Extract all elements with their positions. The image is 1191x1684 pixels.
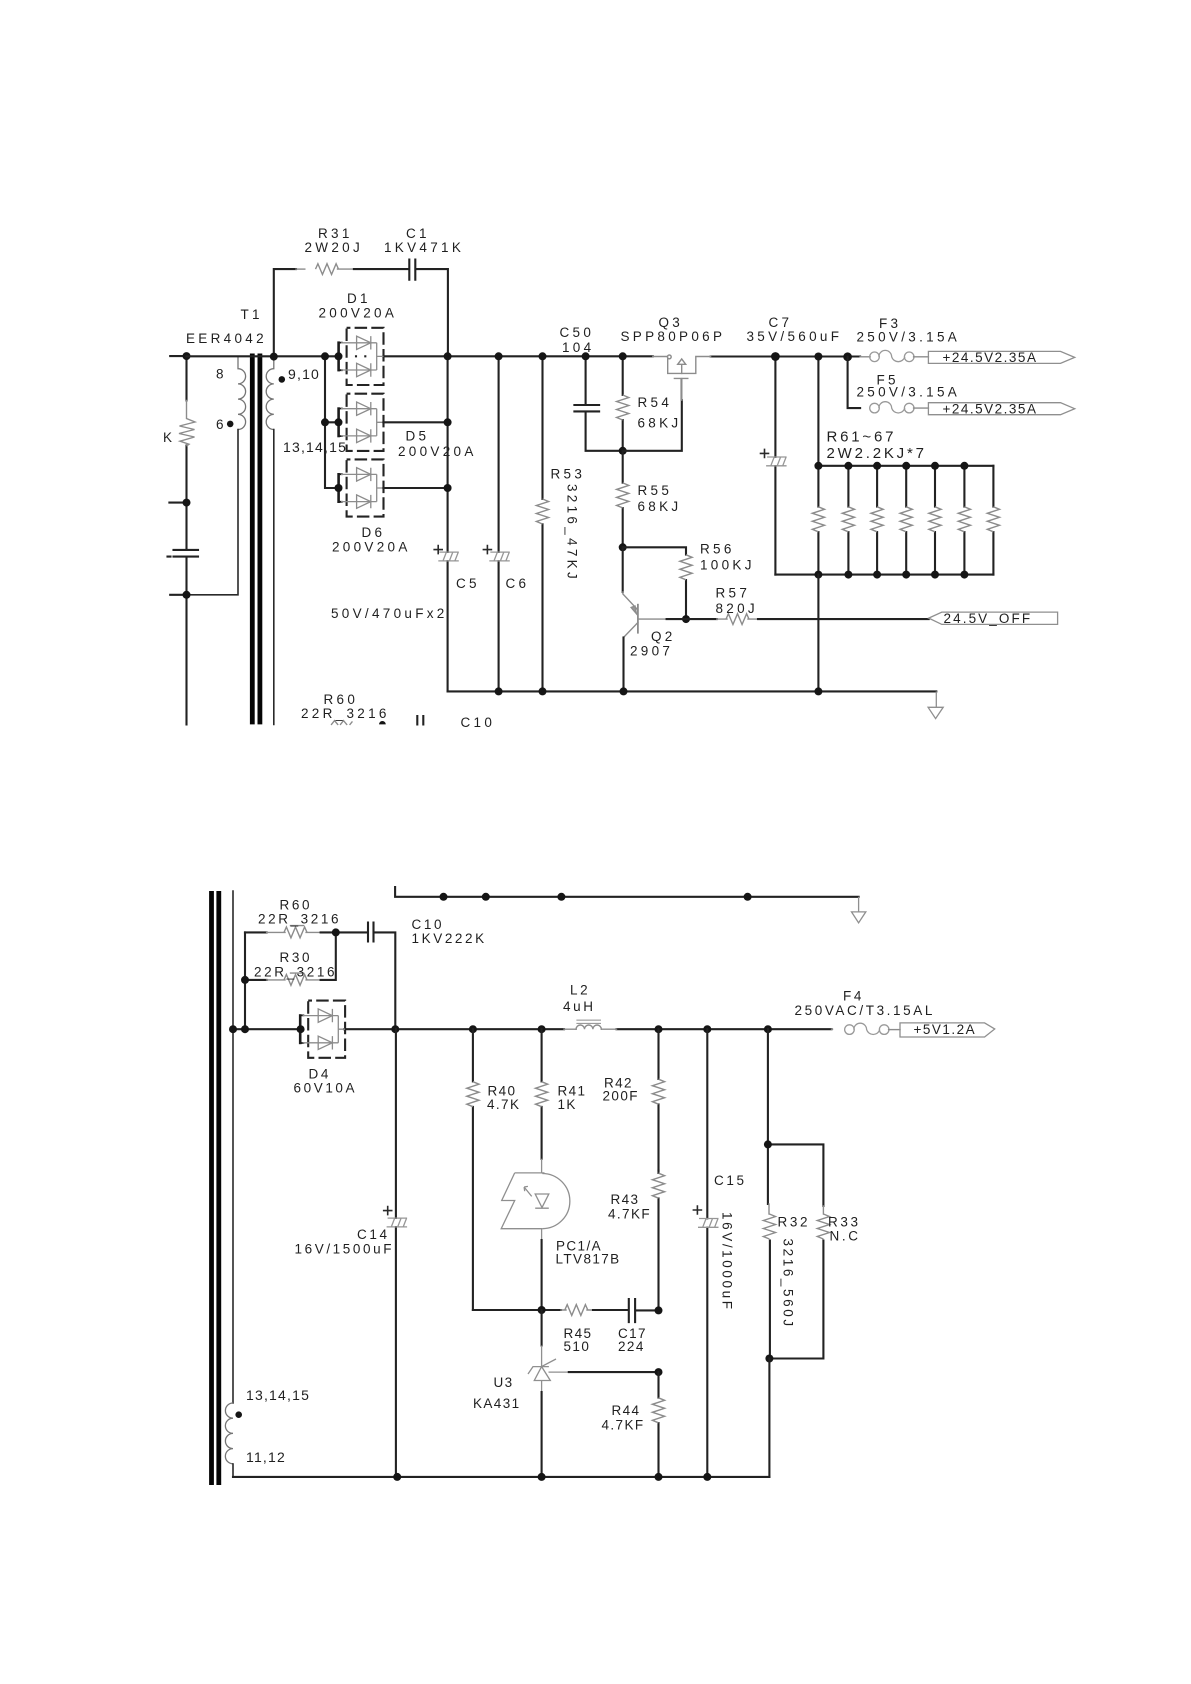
svg-text:104: 104 — [562, 340, 594, 355]
svg-text:C50: C50 — [560, 325, 595, 340]
bus bottom — [814, 571, 822, 579]
resistor R65 — [934, 466, 936, 575]
svg-text:250V/3.15A: 250V/3.15A — [857, 385, 961, 400]
net flag +24.5V2.35A (F3) — [928, 351, 1074, 363]
wire: 5V rectified rail — [233, 1028, 302, 1030]
svg-text:C10: C10 — [412, 917, 445, 932]
transformer T1 core — [252, 354, 260, 725]
pin 9,10 polarity dot — [279, 376, 286, 383]
bus bottom — [844, 571, 852, 579]
inductor L2 4uH — [564, 1028, 576, 1030]
wire: 24.5V return rail — [448, 690, 937, 692]
svg-text:R56: R56 — [700, 542, 735, 557]
svg-text:D1: D1 — [347, 291, 371, 306]
transformer T1 core (bottom) — [212, 891, 219, 1485]
svg-text:C1: C1 — [406, 226, 430, 241]
svg-text:R43: R43 — [611, 1192, 640, 1207]
svg-text:R60: R60 — [280, 898, 313, 913]
winding polarity dot — [235, 1411, 242, 1418]
resistor R30 22R_3216 — [245, 932, 267, 1029]
svg-text:2W2.2KJ*7: 2W2.2KJ*7 — [827, 445, 927, 462]
resistor R60 22R_3216 — [245, 931, 267, 933]
transformer winding 13,14,15 / 11,12 — [232, 891, 234, 1403]
svg-text:22R_3216: 22R_3216 — [258, 912, 341, 927]
winding tap — [229, 1025, 237, 1033]
svg-text:50V/470uFx2: 50V/470uFx2 — [331, 606, 448, 621]
U3 ref node — [655, 1368, 663, 1376]
resistor R32 3216_560J — [768, 1029, 770, 1358]
diode module D1 — [338, 328, 383, 385]
wire: 24.5V_OFF signal — [758, 618, 929, 620]
node 9,10 on rail — [270, 353, 278, 361]
C7 top — [771, 352, 780, 361]
svg-text:200V20A: 200V20A — [398, 444, 477, 459]
svg-text:KA431: KA431 — [473, 1396, 521, 1411]
svg-text:R54: R54 — [638, 395, 673, 410]
D5 out — [444, 418, 452, 426]
resistor R62 — [847, 466, 849, 575]
svg-text:22R_3216: 22R_3216 — [301, 706, 390, 721]
capacitor C1 — [354, 260, 448, 357]
resistor R55 68KJ — [622, 451, 624, 548]
D1 input — [335, 352, 343, 360]
junction left branch / pin6 — [183, 591, 191, 599]
svg-text:+24.5V2.35A: +24.5V2.35A — [943, 350, 1038, 365]
wire: ground bus — [395, 887, 858, 897]
net flag +24.5V2.35A (F5) — [928, 403, 1074, 415]
transistor Q3 SPP80P06P (MOSFET) — [653, 355, 711, 400]
R54 top — [619, 352, 627, 360]
junction (cropped) — [379, 721, 386, 724]
svg-text:SPP80P06P: SPP80P06P — [621, 329, 726, 344]
svg-text:R53: R53 — [551, 467, 586, 482]
svg-text:C14: C14 — [357, 1227, 390, 1242]
resistor R57 820J — [638, 618, 667, 620]
resistor R63 — [876, 466, 878, 575]
resistor R61 — [817, 466, 819, 575]
svg-text:250VAC/T3.15AL: 250VAC/T3.15AL — [795, 1003, 935, 1018]
svg-text:N.C: N.C — [830, 1229, 861, 1244]
wire: Q3 gate network — [623, 400, 682, 451]
svg-text:F4: F4 — [843, 989, 864, 1004]
C6 top — [495, 352, 503, 360]
svg-text:35V/560uF: 35V/560uF — [747, 329, 843, 344]
transformer T1 primary winding pins 8-6 — [238, 356, 246, 429]
svg-text:C7: C7 — [769, 315, 793, 330]
svg-text:D4: D4 — [309, 1067, 331, 1082]
svg-text:3216_560J: 3216_560J — [781, 1239, 796, 1329]
svg-text:510: 510 — [564, 1339, 591, 1354]
svg-text:820J: 820J — [716, 601, 758, 616]
R41 top — [538, 1025, 546, 1033]
resistor R33 N.C — [768, 1144, 824, 1358]
svg-text:4.7KF: 4.7KF — [602, 1418, 645, 1433]
R54/C50/gate junction — [619, 447, 627, 455]
R42 top — [655, 1025, 663, 1033]
svg-text:100KJ: 100KJ — [700, 558, 755, 573]
bus dot — [557, 893, 565, 901]
svg-text:224: 224 — [618, 1339, 645, 1354]
svg-text:R32: R32 — [778, 1215, 811, 1230]
svg-text:R57: R57 — [716, 586, 751, 601]
transformer T1 secondary winding pins 9,10 / 13,14,15 — [266, 357, 274, 430]
svg-text:R30: R30 — [280, 950, 313, 965]
svg-text:C6: C6 — [506, 576, 530, 591]
bus top — [844, 462, 852, 470]
resistor R66 — [963, 466, 965, 575]
svg-text:EER4042: EER4042 — [186, 331, 267, 346]
svg-text:2907: 2907 — [630, 644, 673, 659]
svg-text:68KJ: 68KJ — [638, 499, 682, 514]
net flag +5V1.2A — [900, 1023, 995, 1037]
bus top — [931, 462, 939, 470]
bus top — [960, 462, 968, 470]
capacitor C50 104 — [574, 356, 622, 451]
shunt regulator U3 KA431 — [541, 1310, 543, 1346]
svg-text:24.5V_OFF: 24.5V_OFF — [944, 611, 1033, 626]
svg-text:11,12: 11,12 — [246, 1449, 286, 1465]
R43/C17 node — [655, 1306, 663, 1314]
transistor Q2 2907 (PNP) — [622, 547, 624, 592]
svg-text:R60: R60 — [324, 692, 359, 707]
svg-text:1K: 1K — [558, 1097, 577, 1112]
svg-text:6: 6 — [216, 417, 227, 432]
resistor R31 — [274, 269, 296, 357]
capacitor C17 224 — [593, 1299, 659, 1322]
svg-text:3216_47KJ: 3216_47KJ — [565, 484, 580, 582]
svg-text:L2: L2 — [570, 983, 590, 998]
resistor R41 1K — [541, 1029, 543, 1159]
C10/C14 node — [391, 1025, 399, 1033]
D4 input — [297, 1025, 305, 1033]
optocoupler PC1/A LTV817B — [501, 1173, 570, 1229]
wire: left branch with stubs — [169, 356, 186, 724]
wire: tee to D5/D6 inputs — [325, 356, 339, 488]
tee on rail — [321, 352, 329, 360]
node: rail left — [183, 352, 191, 360]
capacitor C14 16V/1500uF — [395, 1029, 397, 1477]
resistor R42 200F — [657, 1029, 659, 1170]
svg-text:Q2: Q2 — [651, 629, 676, 644]
pin 6 polarity dot — [227, 421, 234, 428]
svg-text:1KV471K: 1KV471K — [384, 240, 464, 255]
wire: 5V return rail — [233, 1476, 769, 1478]
svg-text:R33: R33 — [828, 1215, 861, 1230]
svg-text:9,10: 9,10 — [288, 366, 320, 382]
svg-text:1KV222K: 1KV222K — [412, 931, 487, 946]
C15 bottom — [703, 1473, 711, 1481]
svg-text:16V/1000uF: 16V/1000uF — [720, 1212, 735, 1312]
bus bottom — [931, 571, 939, 579]
svg-text:+5V1.2A: +5V1.2A — [914, 1022, 977, 1037]
bus top — [873, 462, 881, 470]
C50 top — [582, 352, 590, 360]
svg-text:13,14,15: 13,14,15 — [283, 439, 347, 455]
svg-text:D5: D5 — [406, 429, 430, 444]
svg-text:+24.5V2.35A: +24.5V2.35A — [943, 401, 1038, 416]
capacitor C5 (50V/470uFx2) — [447, 356, 449, 691]
resistor R40 4.7K — [472, 1029, 474, 1310]
wire: U3 reference — [549, 1371, 569, 1373]
wire: +24.5V rectified rail — [187, 355, 366, 357]
LED cathode node — [538, 1306, 546, 1314]
C6 bottom — [495, 687, 503, 695]
bus top — [814, 462, 822, 470]
ground symbol (top section) — [928, 691, 943, 718]
diode module D5 — [338, 394, 383, 451]
bus dot — [744, 893, 752, 901]
bus dot — [482, 893, 490, 901]
capacitor C6 — [498, 356, 500, 691]
resistor R67 — [992, 466, 994, 575]
svg-text:200F: 200F — [603, 1089, 639, 1104]
fuse F4 250VAC/T3.15AL — [832, 1028, 833, 1030]
R40 top — [469, 1025, 477, 1033]
tee D5 — [321, 418, 329, 426]
R61-67 feed — [814, 353, 822, 361]
svg-text:4.7K: 4.7K — [487, 1097, 520, 1112]
svg-text:4uH: 4uH — [563, 999, 596, 1014]
R30 left — [241, 976, 249, 984]
junction left branch — [183, 499, 191, 507]
U3 anode — [538, 1473, 546, 1481]
svg-text:200V20A: 200V20A — [319, 306, 398, 321]
svg-text:R55: R55 — [638, 483, 673, 498]
svg-text:13,14,15: 13,14,15 — [246, 1387, 310, 1403]
bus bottom — [960, 571, 968, 579]
svg-text:K: K — [163, 430, 175, 445]
D6 input — [335, 484, 343, 492]
resistor R54 68KJ — [622, 356, 624, 451]
fuse F3 250V/3.15A — [860, 356, 870, 358]
R53 bottom — [539, 687, 547, 695]
capacitor (cropped, left branch) — [168, 550, 199, 557]
bank drain — [814, 687, 822, 695]
svg-text:2W20J: 2W20J — [305, 240, 364, 255]
bus bottom — [873, 571, 881, 579]
svg-text:LTV817B: LTV817B — [556, 1252, 621, 1267]
R44 bottom — [655, 1473, 663, 1481]
C5 top — [444, 352, 452, 360]
svg-text:D6: D6 — [362, 525, 386, 540]
svg-text:T1: T1 — [241, 307, 263, 322]
C14 bottom — [393, 1473, 401, 1481]
R60/R30/C10 junction — [332, 928, 340, 936]
capacitor C10 (cropped) — [417, 716, 423, 724]
capacitor C7 35V/560uF — [774, 357, 776, 575]
bus bottom — [902, 571, 910, 579]
wire: bank to ground rail — [817, 575, 819, 692]
svg-text:R31: R31 — [318, 226, 353, 241]
diode module D4 60V10A — [300, 1001, 345, 1058]
svg-text:Q3: Q3 — [659, 315, 684, 330]
resistor K (cropped) — [179, 401, 195, 446]
ground symbol (bottom section) — [852, 897, 866, 923]
svg-text:68KJ: 68KJ — [638, 416, 682, 431]
C15 top — [703, 1025, 711, 1033]
svg-text:200V20A: 200V20A — [332, 540, 411, 555]
svg-text:250V/3.15A: 250V/3.15A — [857, 330, 961, 345]
capacitor C10 1KV222K — [368, 923, 395, 1030]
resistor bank R61~67 2W2.2KJ*7 — [775, 357, 993, 575]
svg-text:C15: C15 — [714, 1173, 747, 1188]
R55 bottom — [619, 543, 627, 551]
svg-text:C5: C5 — [456, 576, 480, 591]
diode module D6 — [338, 459, 383, 516]
svg-text:U3: U3 — [494, 1375, 514, 1390]
svg-text:4.7KF: 4.7KF — [608, 1207, 651, 1222]
Q2 collector — [620, 687, 628, 695]
R53 top — [539, 352, 547, 360]
wire: R32 branch to rail — [768, 1359, 770, 1477]
R32/R33 top — [764, 1025, 772, 1033]
net flag 24.5V_OFF — [929, 612, 1058, 624]
svg-text:8: 8 — [216, 367, 227, 382]
resistor R43 4.7KF — [657, 1171, 659, 1311]
resistor R45 510 — [473, 1309, 561, 1311]
D6 out — [444, 484, 452, 492]
F3/F5 node — [843, 352, 852, 361]
R32/R33 tee — [764, 1140, 772, 1148]
svg-text:C10: C10 — [461, 715, 496, 730]
fuse F5 250V/3.15A — [848, 357, 861, 408]
R30 branch — [241, 1025, 249, 1033]
svg-text:22R_3216: 22R_3216 — [254, 965, 337, 980]
R56 bottom / Q2 base — [682, 615, 690, 623]
svg-text:16V/1500uF: 16V/1500uF — [295, 1242, 395, 1257]
resistor R53 3216_47KJ — [541, 356, 543, 691]
svg-text:R61~67: R61~67 — [827, 429, 897, 446]
R32/R33 bottom — [765, 1355, 773, 1363]
bus top — [902, 462, 910, 470]
wire: D1/D5/D6 outputs to C5 line — [383, 422, 447, 488]
svg-text:R44: R44 — [612, 1403, 641, 1418]
resistor R44 4.7KF — [657, 1372, 659, 1477]
bus dot — [440, 893, 448, 901]
resistor R56 100KJ — [623, 547, 686, 619]
svg-text:60V10A: 60V10A — [294, 1081, 358, 1096]
D5 input — [335, 418, 343, 426]
resistor R64 — [905, 466, 907, 575]
capacitor C15 16V/1000uF — [706, 1029, 708, 1477]
